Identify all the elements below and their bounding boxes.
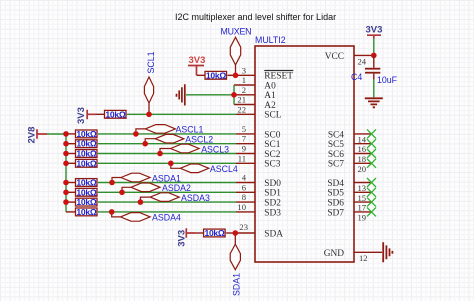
resistor RESET pullup 10k xyxy=(205,70,227,80)
svg-text:I2C multiplexer and level shif: I2C multiplexer and level shifter for Li… xyxy=(175,12,336,22)
power 3V3 for VCC xyxy=(366,24,383,38)
svg-text:RESET: RESET xyxy=(264,72,293,82)
resistor pullup 10k row ASCL2 xyxy=(76,139,98,149)
wire 2V8 bus to resistor row ASDA4 xyxy=(66,211,76,213)
power 3V3 for SCL pullup xyxy=(76,107,96,124)
testpoint MUXEN jumper xyxy=(221,26,252,75)
wire ground to A1 xyxy=(186,94,234,96)
testpoint ASCL4 jumper xyxy=(171,163,238,174)
ground symbol near A1 xyxy=(177,84,185,105)
wire row ASCL2 to IC xyxy=(98,143,236,145)
junction node ASDA1 xyxy=(109,180,115,186)
no-connect X SD6 xyxy=(367,198,376,207)
no-connect X SC4 xyxy=(367,129,376,138)
wire 2V8 bus to resistor row ASCL4 xyxy=(66,162,76,164)
wire 2V8 bus to resistor row ASCL1 xyxy=(66,133,76,135)
svg-text:SD6: SD6 xyxy=(327,199,344,209)
svg-text:11: 11 xyxy=(238,153,246,163)
svg-text:SD1: SD1 xyxy=(264,189,281,199)
svg-text:SD0: SD0 xyxy=(264,179,281,189)
resistor pullup 10k row ASDA3 xyxy=(76,197,98,207)
svg-text:ASDA3: ASDA3 xyxy=(181,193,210,203)
svg-text:A2: A2 xyxy=(264,101,276,111)
wire GND pin to ground xyxy=(372,251,383,253)
testpoint SCL1 jumper xyxy=(144,51,156,114)
wire 3V3 to R SCL xyxy=(96,113,106,115)
svg-text:SC1: SC1 xyxy=(264,140,280,150)
junction 2V8 bus at y 202.1 xyxy=(63,199,69,205)
svg-text:19: 19 xyxy=(358,212,367,222)
right pin stubs xyxy=(354,55,374,252)
junction 2V8 bus at y 153.5 xyxy=(63,151,69,157)
svg-text:ASCL2: ASCL2 xyxy=(185,135,213,145)
svg-text:3: 3 xyxy=(242,65,246,75)
svg-text:3V3: 3V3 xyxy=(366,24,383,35)
wire 2V8 bus to resistor row ASDA3 xyxy=(66,201,76,203)
wire SCL net xyxy=(127,113,236,115)
svg-text:16: 16 xyxy=(358,144,367,154)
svg-text:5: 5 xyxy=(242,124,246,134)
svg-text:SD5: SD5 xyxy=(327,189,344,199)
resistor pullup 10k row ASCL4 xyxy=(76,158,98,168)
testpoint ASDA1 jumper xyxy=(112,173,181,183)
wire 2V8 bus to resistor row ASDA1 xyxy=(66,182,76,184)
svg-text:18: 18 xyxy=(358,154,367,164)
capacitor C4 10uF xyxy=(351,69,398,85)
testpoint ASDA4 jumper xyxy=(112,212,181,223)
junction 2V8 bus at y 133.9 xyxy=(63,131,69,137)
svg-text:22: 22 xyxy=(237,104,246,114)
svg-text:C4: C4 xyxy=(351,72,362,82)
svg-text:8: 8 xyxy=(242,192,246,202)
resistor pullup 10k row ASDA2 xyxy=(76,187,98,197)
junction node SCL xyxy=(146,112,152,118)
no-connect X SC6 xyxy=(367,149,376,158)
testpoint ASCL1 jumper xyxy=(136,125,204,135)
resistor pullup 10k row ASCL1 xyxy=(76,129,98,139)
svg-text:15: 15 xyxy=(358,193,367,203)
junction node ASCL2 xyxy=(142,141,148,147)
wire row ASDA4 to IC xyxy=(98,211,236,213)
testpoint ASCL3 jumper xyxy=(160,144,229,154)
svg-text:13: 13 xyxy=(358,183,367,193)
wire 2V8 to bus xyxy=(47,133,66,135)
junction node RESET xyxy=(233,73,239,79)
wire 2V8 bus to resistor row ASDA2 xyxy=(66,191,76,193)
resistor pullup 10k row ASDA1 xyxy=(76,178,98,188)
junction 2V8 bus at y 143.7 xyxy=(63,141,69,147)
resistor pullup 10k row ASCL3 xyxy=(76,149,98,159)
wire row ASDA2 to IC xyxy=(98,191,236,193)
junction node ASDA3 xyxy=(138,199,144,205)
ground symbol below C4 xyxy=(365,98,383,107)
no-connect X SD5 xyxy=(367,188,376,197)
no-connect X SC5 xyxy=(367,139,376,148)
svg-text:ASDA1: ASDA1 xyxy=(152,173,181,183)
svg-text:9: 9 xyxy=(242,144,246,154)
svg-text:SC0: SC0 xyxy=(264,130,280,140)
junction node ASCL1 xyxy=(133,131,139,137)
svg-text:SC6: SC6 xyxy=(328,150,344,160)
resistor SCL pullup 10k xyxy=(105,109,127,119)
svg-text:21: 21 xyxy=(237,95,246,105)
resistor SDA pullup 10k xyxy=(204,228,226,238)
ground symbol at GND pin xyxy=(383,242,392,262)
wire C4 to ground xyxy=(373,80,375,98)
testpoint ASDA3 jumper xyxy=(140,193,210,203)
svg-text:10: 10 xyxy=(237,202,246,212)
svg-text:SC5: SC5 xyxy=(328,140,344,150)
wire row ASCL4 to IC xyxy=(98,162,236,164)
svg-text:17: 17 xyxy=(358,203,367,213)
svg-text:4: 4 xyxy=(242,173,247,183)
svg-text:ASCL4: ASCL4 xyxy=(210,164,238,174)
svg-text:3V3: 3V3 xyxy=(76,107,87,124)
power 3V3 for SDA pullup xyxy=(177,228,196,247)
svg-text:24: 24 xyxy=(358,57,367,67)
svg-text:A1: A1 xyxy=(264,91,276,101)
svg-text:ASCL1: ASCL1 xyxy=(176,125,204,135)
svg-text:ASCL3: ASCL3 xyxy=(201,144,229,154)
junction node ASDA4 xyxy=(109,209,115,215)
junction node SDA xyxy=(233,230,239,236)
svg-text:6: 6 xyxy=(242,182,247,192)
svg-text:ASDA4: ASDA4 xyxy=(152,213,181,223)
svg-text:A0: A0 xyxy=(264,81,276,91)
svg-text:MUXEN: MUXEN xyxy=(221,26,252,36)
junction node ASCL4 xyxy=(168,161,174,167)
no-connect X SC7 xyxy=(367,159,376,168)
wire 2V8 vertical bus xyxy=(65,134,67,212)
svg-text:SCL: SCL xyxy=(264,111,281,121)
svg-text:14: 14 xyxy=(358,134,367,144)
wire R to node RESET xyxy=(228,74,236,76)
svg-text:3V3: 3V3 xyxy=(189,55,206,66)
svg-text:SD2: SD2 xyxy=(264,199,281,209)
wire R to node SDA xyxy=(226,232,235,234)
junction node ASCL3 xyxy=(157,151,163,157)
no-connect X SD4 xyxy=(367,178,376,187)
wire 2V8 bus to resistor row ASCL2 xyxy=(66,143,76,145)
wire row ASDA1 to IC xyxy=(98,182,236,184)
svg-text:SCL1: SCL1 xyxy=(146,51,156,73)
left pin stubs xyxy=(234,75,255,233)
svg-text:7: 7 xyxy=(242,134,247,144)
pin RESET pin3 name xyxy=(264,71,293,82)
svg-text:SDA: SDA xyxy=(264,229,283,239)
svg-text:1: 1 xyxy=(242,75,246,85)
IC U1 MULTI2 body xyxy=(255,35,354,262)
svg-text:MULTI2: MULTI2 xyxy=(255,35,286,45)
junction node ASDA2 xyxy=(119,190,125,196)
svg-text:GND: GND xyxy=(324,249,345,259)
testpoint SDA1 jumper xyxy=(230,233,241,296)
wire row ASCL3 to IC xyxy=(98,153,236,155)
svg-text:SC2: SC2 xyxy=(264,150,280,160)
wire row ASDA3 to IC xyxy=(98,201,236,203)
wire row ASCL1 to IC xyxy=(98,133,236,135)
wire 3V3 to VCC node xyxy=(373,39,375,54)
junction 2V8 bus at y 192.3 xyxy=(63,190,69,196)
svg-text:ASDA2: ASDA2 xyxy=(162,183,191,193)
svg-text:2: 2 xyxy=(242,85,246,95)
power 3V3 for RESET pullup xyxy=(188,55,205,76)
resistor pullup 10k row ASDA4 xyxy=(76,207,98,217)
power 2V8 xyxy=(27,127,47,144)
testpoint ASDA2 jumper xyxy=(122,183,191,193)
junction 2V8 bus at y 182.5 xyxy=(63,180,69,186)
junction node A1 xyxy=(231,92,237,98)
testpoint ASCL2 jumper xyxy=(145,134,213,144)
junction 2V8 bus at y 163.3 xyxy=(63,161,69,167)
svg-text:SDA1: SDA1 xyxy=(232,273,242,296)
svg-text:SC4: SC4 xyxy=(328,130,344,140)
svg-text:SD7: SD7 xyxy=(327,208,344,218)
junction node VCC xyxy=(371,53,377,59)
svg-text:SC7: SC7 xyxy=(328,160,344,170)
svg-text:SD3: SD3 xyxy=(264,208,281,218)
wire 2V8 bus to resistor row ASCL3 xyxy=(66,153,76,155)
wire 3V3 to R SDA xyxy=(195,232,204,234)
svg-text:SD4: SD4 xyxy=(327,179,344,189)
svg-text:10uF: 10uF xyxy=(377,75,398,85)
svg-text:12: 12 xyxy=(359,253,368,263)
svg-text:SC3: SC3 xyxy=(264,160,280,170)
wire tying A0 A1 A2 xyxy=(233,85,235,105)
wire 3V3 to R RESET xyxy=(197,74,206,76)
wire VCC node to C4 xyxy=(373,55,375,79)
svg-text:VCC: VCC xyxy=(325,52,344,62)
svg-text:2V8: 2V8 xyxy=(27,127,38,144)
svg-text:20: 20 xyxy=(358,164,367,174)
svg-text:23: 23 xyxy=(239,222,248,232)
no-connect X SD7 xyxy=(367,207,376,216)
